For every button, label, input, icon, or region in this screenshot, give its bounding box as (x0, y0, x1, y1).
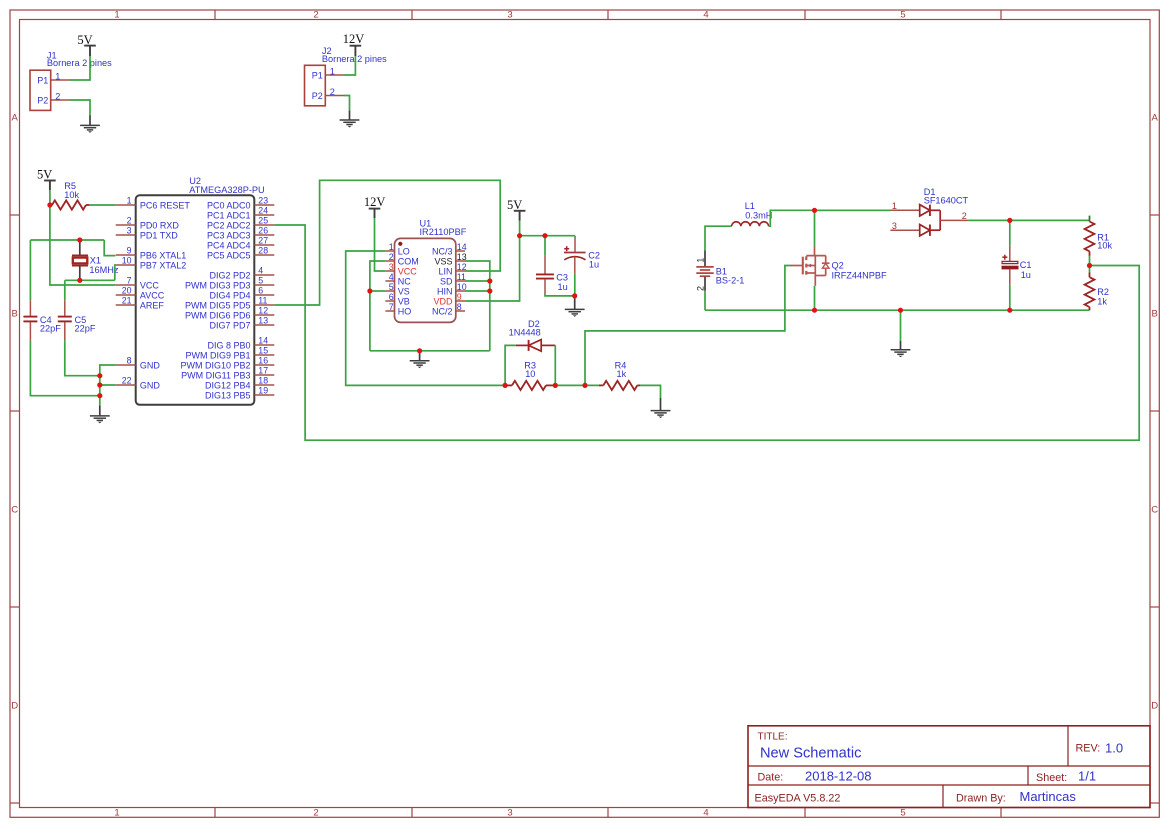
capacitor C2 value 1u (589, 260, 599, 270)
wire J2 pin2 to ground (344, 96, 350, 111)
U2 pin 26 PC3 ADC3 stub (254, 234, 274, 236)
U2 pin 23 number (258, 196, 268, 206)
ic U1 pin1 marker (398, 242, 402, 246)
diode D1 value SF1640CT (924, 196, 969, 206)
U1 pin name HO (398, 306, 412, 316)
U2 pin 28 PC5 ADC5 stub (254, 254, 274, 256)
svg-text:5: 5 (900, 807, 905, 818)
ground at U1 (410, 351, 430, 368)
svg-text:PC0 ADC0: PC0 ADC0 (207, 200, 251, 210)
U2 pin name DIG13 PB5 (205, 390, 251, 400)
wire C1 top (1009, 220, 1011, 245)
U2 pin 16 PWM DIG10 PB2 stub (254, 364, 274, 366)
capacitor C2 top lead (574, 238, 576, 252)
U2 pin 4 DIG2 PD2 stub (254, 274, 274, 276)
svg-text:4: 4 (389, 272, 394, 282)
wire J1 pin1 to 5V (70, 56, 91, 80)
ground at U2 (90, 406, 110, 424)
connector J2 box (305, 65, 326, 106)
svg-text:DIG12 PB4: DIG12 PB4 (205, 380, 251, 390)
svg-text:9: 9 (457, 292, 462, 302)
wire J1 pin2 to ground (70, 100, 91, 116)
capacitor C4 refdes (40, 315, 52, 325)
svg-text:1u: 1u (558, 282, 568, 292)
svg-text:10: 10 (122, 256, 132, 266)
U2 pin name PWM DIG9 PB1 (185, 350, 250, 360)
sheet label (1036, 772, 1067, 784)
U2 pin 19 DIG13 PB5 stub (254, 394, 274, 396)
wire VS to gnd net (370, 290, 386, 292)
resistor R4 value 1k (617, 369, 627, 379)
svg-text:21: 21 (122, 296, 132, 306)
svg-text:DIG2 PD2: DIG2 PD2 (209, 270, 250, 280)
svg-text:PWM DIG11 PB3: PWM DIG11 PB3 (181, 370, 250, 380)
junction HIN (487, 288, 492, 293)
svg-text:REV:: REV: (1076, 743, 1101, 755)
svg-text:AVCC: AVCC (140, 290, 165, 300)
J1 pin 1 number (55, 71, 60, 81)
svg-text:2: 2 (313, 10, 318, 21)
svg-text:HO: HO (398, 306, 412, 316)
U1 pin 8 NC/2 stub (456, 310, 465, 312)
svg-text:1: 1 (330, 66, 335, 76)
svg-text:1/1: 1/1 (1078, 769, 1096, 784)
U2 pin 7 VCC stub (116, 284, 136, 286)
U1 pin name COM (398, 256, 419, 266)
junction VS/COM (367, 288, 372, 293)
J1 pin P2 name (37, 95, 48, 105)
capacitor C3 value 1u (558, 282, 568, 292)
capacitor C2 arc plate (564, 257, 585, 260)
U2 pin 20 AVCC stub (116, 294, 136, 296)
U1 pin name VB (398, 296, 410, 306)
svg-text:22: 22 (122, 376, 132, 386)
resistor R1 refdes (1097, 233, 1109, 243)
svg-text:Date:: Date: (758, 772, 784, 784)
U2 pin 27 number (258, 236, 268, 246)
wire source (814, 286, 816, 310)
U1 pin 12 LIN stub (456, 270, 465, 272)
U2 pin 22 number (122, 376, 132, 386)
U2 pin 11 PWM DIG5 PD5 stub (254, 304, 274, 306)
U2 pin name PB6 XTAL1 (140, 250, 186, 260)
J2 pin 1 stub (325, 74, 344, 76)
svg-text:7: 7 (389, 302, 394, 312)
power 5V at J1 (77, 33, 95, 56)
wire D2 right (554, 345, 556, 385)
svg-text:P1: P1 (312, 71, 323, 81)
svg-text:5V: 5V (507, 198, 522, 212)
wire bottom gnd stem (900, 310, 902, 341)
U2 pin 7 number (127, 276, 132, 286)
svg-text:14: 14 (457, 242, 467, 252)
svg-text:C: C (11, 505, 18, 516)
svg-text:12V: 12V (343, 32, 365, 46)
U2 pin 17 number (258, 366, 268, 376)
ic U1 body (395, 238, 456, 322)
U1 pin 14 NC/3 stub (456, 250, 465, 252)
U2 pin name PWM DIG10 PB2 (180, 360, 250, 370)
U2 pin 21 number (122, 296, 132, 306)
U2 pin name DIG4 PD4 (209, 290, 250, 300)
ground at J2 (340, 111, 360, 128)
svg-text:1.0: 1.0 (1105, 741, 1123, 756)
resistor R3 value 10 (525, 369, 535, 379)
U1 pin 5 number (389, 282, 394, 292)
svg-text:COM: COM (398, 256, 419, 266)
wire bottom rail (705, 309, 1090, 311)
wire COM to gnd (370, 261, 386, 351)
svg-text:New Schematic: New Schematic (760, 746, 861, 762)
U2 pin name PC6 RESET (140, 200, 191, 210)
svg-text:5V: 5V (77, 33, 92, 47)
svg-text:2: 2 (696, 286, 706, 291)
D1 pin 2 number (962, 211, 967, 221)
D1 pin 1 number (892, 201, 897, 211)
U2 pin 25 PC2 ADC2 stub (254, 224, 274, 226)
U2 pin name PWM DIG3 PD3 (185, 280, 251, 290)
svg-text:Martincas: Martincas (1020, 789, 1077, 804)
wire HIN to gnd (465, 290, 490, 292)
U1 pin 3 number (389, 262, 394, 272)
wire VDD to 5V (465, 236, 520, 301)
capacitor C5 refdes (75, 315, 87, 325)
svg-text:2: 2 (330, 87, 335, 97)
svg-text:LIN: LIN (438, 266, 452, 276)
U2 pin name PC0 ADC0 (207, 200, 251, 210)
wire C5 top (64, 280, 66, 300)
svg-text:12: 12 (258, 306, 268, 316)
svg-text:PC4 ADC4: PC4 ADC4 (207, 240, 251, 250)
svg-text:1: 1 (127, 196, 132, 206)
U1 pin 4 number (389, 272, 394, 282)
U2 pin 6 DIG4 PD4 stub (254, 294, 274, 296)
J1 pin P1 name (37, 75, 48, 85)
U1 pin 14 number (457, 242, 467, 252)
junction divider (1087, 263, 1092, 268)
wire R5 to U2 pin1 (89, 204, 115, 206)
svg-text:VCC: VCC (140, 280, 160, 290)
svg-text:2018-12-08: 2018-12-08 (805, 769, 872, 784)
svg-text:2: 2 (389, 252, 394, 262)
battery B1 refdes (716, 266, 727, 276)
U1 pin name VDD (433, 296, 453, 306)
J2 pin 2 stub (325, 95, 344, 97)
svg-text:PD1 TXD: PD1 TXD (140, 230, 178, 240)
U1 pin 2 COM stub (385, 260, 394, 262)
U2 pin 14 number (258, 336, 268, 346)
svg-text:13: 13 (258, 316, 268, 326)
wire HO net to Q2 gate (585, 266, 791, 386)
U2 pin 18 number (258, 376, 268, 386)
U2 pin 15 number (258, 346, 268, 356)
U1 pin name VS (398, 286, 410, 296)
ic U2 body (136, 195, 255, 404)
capacitor C3 leads (544, 255, 546, 293)
U2 pin 24 number (258, 206, 268, 216)
ground at J1 (80, 116, 100, 133)
ic U2 refdes (189, 176, 201, 186)
wire L1 to top rail (769, 210, 891, 226)
inductor L1 refdes (745, 201, 755, 211)
svg-text:14: 14 (258, 336, 268, 346)
U2 pin name AVCC (140, 290, 165, 300)
U2 pin name PD1 TXD (140, 230, 178, 240)
svg-text:NC/2: NC/2 (432, 306, 453, 316)
capacitor C1 bottom lead (1009, 269, 1011, 284)
svg-text:2: 2 (55, 91, 60, 101)
svg-text:12: 12 (457, 262, 467, 272)
U1 pin 12 number (457, 262, 467, 272)
svg-text:8: 8 (127, 356, 132, 366)
capacitor C2 top plate (564, 252, 586, 254)
U2 pin name PC4 ADC4 (207, 240, 251, 250)
U1 pin 7 number (389, 302, 394, 312)
wire C2 bottom (574, 273, 576, 296)
U1 pin name NC (398, 276, 411, 286)
svg-text:DIG13 PB5: DIG13 PB5 (205, 390, 251, 400)
wire 5V stem (519, 221, 521, 236)
resistor R2 value 1k (1097, 297, 1107, 307)
wire C2 top corner (574, 236, 576, 238)
U1 pin 10 HIN stub (456, 290, 465, 292)
junction Q2 source (812, 308, 817, 313)
J2 pin P2 name (312, 91, 323, 101)
wire B1 bottom (704, 291, 706, 310)
capacitor C2 bottom lead (574, 257, 576, 274)
U1 pin 6 number (389, 292, 394, 302)
U2 pin name PC5 ADC5 (207, 250, 251, 260)
U2 pin 13 number (258, 316, 268, 326)
svg-text:27: 27 (258, 236, 268, 246)
resistor R5 value 10k (64, 190, 79, 200)
svg-text:1: 1 (892, 201, 897, 211)
wire J2 pin1 to 12V (344, 56, 355, 75)
diode D2 refdes (528, 319, 540, 329)
svg-text:ATMEGA328P-PU: ATMEGA328P-PU (189, 185, 264, 195)
wire C5 bottom to gnd bus (65, 340, 100, 375)
svg-text:5: 5 (389, 282, 394, 292)
wire ADC2 net (274, 225, 1139, 440)
battery B1 pin 1 number (696, 258, 706, 263)
capacitor C4 plates (23, 317, 37, 322)
svg-text:C1: C1 (1020, 260, 1032, 270)
svg-text:10k: 10k (64, 190, 79, 200)
svg-text:PWM DIG3 PD3: PWM DIG3 PD3 (185, 280, 251, 290)
U1 pin name SD (440, 276, 453, 286)
capacitor C1 top plate (1002, 261, 1018, 263)
U1 pin 4 NC stub (385, 280, 394, 282)
svg-text:5: 5 (900, 10, 905, 21)
wire D1 out (968, 219, 1089, 221)
capacitor C1 refdes (1020, 260, 1032, 270)
U2 pin 12 PWM DIG6 PD6 stub (254, 314, 274, 316)
U2 pin 9 number (127, 246, 132, 256)
wire SD to gnd (465, 280, 490, 282)
date label (758, 772, 784, 784)
U2 pin name PD0 RXD (140, 220, 180, 230)
transistor Q2 refdes (832, 261, 844, 271)
U2 pin 13 DIG7 PD7 stub (254, 324, 274, 326)
svg-text:DIG7 PD7: DIG7 PD7 (209, 320, 250, 330)
U2 pin 9 PB6 XTAL1 stub (116, 254, 136, 256)
svg-text:28: 28 (258, 246, 268, 256)
J1 pin 2 number (55, 91, 60, 101)
svg-text:NC/3: NC/3 (432, 246, 453, 256)
date value 2018-12-08 (805, 769, 872, 784)
svg-text:17: 17 (258, 366, 268, 376)
junction C2 gnd (572, 293, 577, 298)
U2 pin name GND (140, 360, 161, 370)
ground at R4 (651, 398, 671, 418)
crystal X1 refdes (90, 255, 101, 265)
U1 pin 11 SD stub (456, 280, 465, 282)
svg-text:Sheet:: Sheet: (1036, 772, 1067, 784)
capacitor C5 value 22pF (75, 324, 96, 334)
junction U1 gnd stem (417, 348, 422, 353)
svg-text:22pF: 22pF (75, 324, 96, 334)
capacitor C4 leads (29, 300, 31, 341)
svg-text:PD0 RXD: PD0 RXD (140, 220, 180, 230)
svg-text:PWM DIG10 PB2: PWM DIG10 PB2 (180, 360, 250, 370)
capacitor C2 refdes (588, 251, 600, 261)
svg-text:DIG 8 PB0: DIG 8 PB0 (207, 340, 250, 350)
svg-text:9: 9 (127, 246, 132, 256)
svg-text:4: 4 (703, 807, 708, 818)
svg-text:D: D (11, 701, 18, 712)
diode D2 symbol (516, 340, 556, 352)
resistor R2 (1085, 273, 1095, 311)
U2 pin name PWM DIG11 PB3 (181, 370, 250, 380)
U2 pin 2 PD0 RXD stub (116, 224, 136, 226)
junction X1 bottom (77, 278, 82, 283)
junction C3 top (542, 233, 547, 238)
J2 pin 2 number (330, 87, 335, 97)
svg-text:GND: GND (140, 360, 161, 370)
svg-text:10k: 10k (1097, 241, 1112, 251)
svg-text:P1: P1 (37, 75, 48, 85)
crystal X1 value 16MHz (89, 265, 119, 275)
U2 pin name PC1 ADC1 (207, 210, 251, 220)
U2 pin name PC2 ADC2 (207, 220, 251, 230)
wire U2 pin8 GND (100, 365, 116, 406)
connector J1 box (30, 70, 51, 110)
U2 pin 23 PC0 ADC0 stub (254, 204, 274, 206)
svg-text:0.3mH: 0.3mH (745, 211, 772, 221)
connector J1 value Bornera 2 pines (47, 58, 112, 68)
U1 pin 1 LO stub (385, 250, 394, 252)
svg-text:B: B (12, 309, 18, 320)
svg-text:C: C (1151, 505, 1158, 516)
ground at C2/C3 (565, 296, 585, 317)
svg-text:VCC: VCC (398, 266, 418, 276)
U1 pin 3 VCC stub (385, 270, 394, 272)
svg-text:1u: 1u (589, 260, 599, 270)
svg-text:SD: SD (440, 276, 453, 286)
ic U1 refdes (420, 219, 432, 229)
U2 pin 24 PC1 ADC1 stub (254, 214, 274, 216)
capacitor C3 refdes (556, 273, 568, 283)
U2 pin 19 number (258, 386, 268, 396)
crystal X1 symbol (72, 255, 88, 265)
battery B1 plates (696, 267, 713, 276)
title block frame (748, 726, 1150, 808)
svg-text:PC1 ADC1: PC1 ADC1 (207, 210, 251, 220)
U2 pin 12 number (258, 306, 268, 316)
resistor R4 (599, 381, 640, 390)
wire 5V to R5 node (49, 190, 51, 205)
U1 pin 6 VB stub (385, 300, 394, 302)
svg-text:P2: P2 (312, 91, 323, 101)
svg-text:3: 3 (389, 262, 394, 272)
rev label (1076, 743, 1101, 755)
U1 pin 10 number (457, 282, 467, 292)
drawn by value Martincas (1020, 789, 1077, 804)
capacitor C4 value 22pF (40, 324, 61, 334)
U2 pin 10 number (122, 256, 132, 266)
wire 5V node to VCC pin7 (50, 205, 116, 285)
svg-text:7: 7 (127, 276, 132, 286)
U2 pin 5 PWM DIG3 PD3 stub (254, 284, 274, 286)
junction 5V node (517, 233, 522, 238)
U2 pin name PC3 ADC3 (207, 230, 251, 240)
svg-text:2: 2 (962, 211, 967, 221)
U2 pin 22 GND stub (116, 384, 136, 386)
svg-text:A: A (1152, 113, 1159, 124)
svg-text:AREF: AREF (140, 300, 165, 310)
wire R3 to R4 (555, 384, 599, 386)
diode D1 refdes (924, 187, 936, 197)
capacitor C5 plates (58, 317, 72, 322)
battery B1 value BS-2-1 (716, 276, 745, 286)
svg-text:1: 1 (389, 242, 394, 252)
U2 pin name PB7 XTAL2 (140, 260, 186, 270)
junction HO net (582, 383, 587, 388)
wire VSS to gnd (465, 261, 490, 351)
svg-text:18: 18 (258, 376, 268, 386)
resistor R1 (1085, 220, 1095, 256)
junction at R5 left (47, 202, 52, 207)
U2 pin name DIG 8 PB0 (207, 340, 250, 350)
svg-text:25: 25 (258, 216, 268, 226)
battery B1 pin2 (704, 277, 706, 291)
U2 pin 21 AREF stub (116, 304, 136, 306)
U2 pin 25 number (258, 216, 268, 226)
svg-text:PWM DIG9 PB1: PWM DIG9 PB1 (185, 350, 250, 360)
U2 pin 18 DIG12 PB4 stub (254, 384, 274, 386)
svg-text:NC: NC (398, 276, 411, 286)
junction gnd bus C4 (97, 393, 102, 398)
U2 pin name GND (140, 380, 161, 390)
resistor R1 value 10k (1097, 241, 1112, 251)
resistor R2 refdes (1097, 287, 1109, 297)
drawn by label (956, 792, 1006, 804)
connector J2 value Bornera 2 pines (322, 54, 387, 64)
J1 pin 1 stub (51, 79, 70, 81)
U2 pin 4 number (258, 266, 263, 276)
inductor L1 (732, 222, 769, 226)
J2 pin P1 name (312, 71, 323, 81)
svg-text:Q2: Q2 (832, 261, 844, 271)
svg-text:X1: X1 (90, 255, 101, 265)
junction R3 right (553, 383, 558, 388)
power 12V at J2 (343, 32, 365, 56)
svg-text:11: 11 (457, 272, 466, 282)
svg-text:3: 3 (892, 221, 897, 231)
U1 pin 7 HO stub (385, 310, 394, 312)
svg-text:22pF: 22pF (40, 324, 61, 334)
power 5V at R5 (37, 167, 56, 190)
